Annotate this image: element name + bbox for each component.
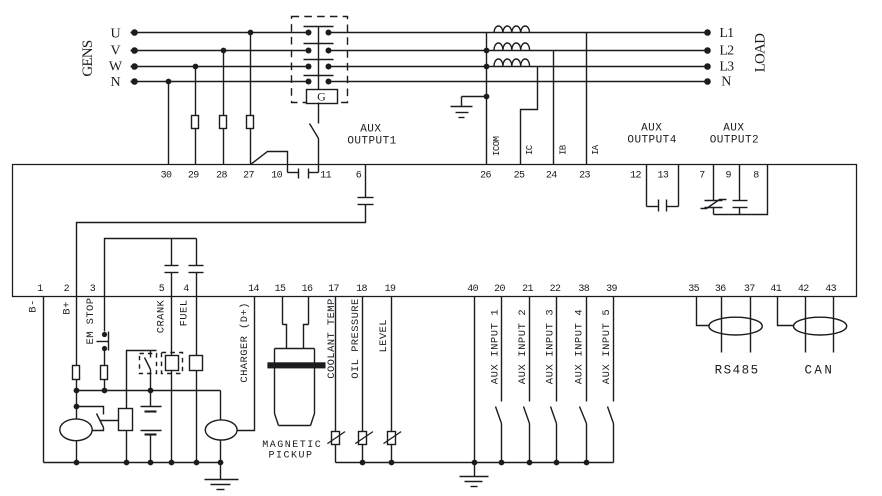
svg-text:B+: B+ xyxy=(61,301,73,314)
pin 11 xyxy=(320,170,331,181)
svg-text:LOAD: LOAD xyxy=(752,33,768,72)
svg-text:AUX INPUT 1: AUX INPUT 1 xyxy=(489,309,501,384)
starter motor M xyxy=(60,407,92,463)
label B- xyxy=(27,299,39,312)
pin 12 xyxy=(630,170,641,181)
svg-text:13: 13 xyxy=(657,170,668,181)
node L3 xyxy=(719,60,734,75)
wire terminal 15 xyxy=(283,297,287,349)
wire terminal 41 (shield) xyxy=(778,297,794,326)
wire terminal AUX INPUT 1 xyxy=(501,297,503,463)
wire ICOM (terminal 26) xyxy=(484,33,490,165)
svg-text:4: 4 xyxy=(183,284,189,295)
svg-text:28: 28 xyxy=(216,170,227,181)
label GENS xyxy=(80,40,96,76)
wire terminal 19 xyxy=(391,297,393,463)
generator breaker coil G xyxy=(307,90,338,104)
pin 20 (bottom) xyxy=(494,284,505,295)
wire terminal 14 xyxy=(238,297,255,431)
svg-text:19: 19 xyxy=(385,284,396,295)
wire terminal 43 xyxy=(833,297,835,353)
svg-text:30: 30 xyxy=(161,170,172,181)
wire terminal 37 xyxy=(750,297,752,353)
svg-text:OUTPUT1: OUTPUT1 xyxy=(347,136,396,148)
ground (CT common) xyxy=(451,107,473,118)
label B+ xyxy=(61,301,73,314)
svg-text:CHARGER (D+): CHARGER (D+) xyxy=(239,302,251,382)
wire terminal AUX INPUT 4 xyxy=(586,297,588,463)
controller box xyxy=(13,165,857,297)
pin 6 xyxy=(356,170,362,181)
wire terminal 18 xyxy=(362,297,364,463)
wire terminal 40 xyxy=(474,297,476,463)
wire CT ground tap xyxy=(462,97,487,107)
horn switch branch xyxy=(77,407,119,431)
wire terminal 29 to W bus xyxy=(195,67,197,165)
label AUX INPUT 4 xyxy=(573,309,585,384)
pin 22 (bottom) xyxy=(550,284,561,295)
label IA xyxy=(591,144,601,155)
wire terminal 10 jog from terminal 27 xyxy=(251,152,288,165)
label CHARGER (D+) xyxy=(239,302,251,382)
svg-text:1: 1 xyxy=(37,284,43,295)
wire U bus xyxy=(131,29,711,36)
svg-text:7: 7 xyxy=(699,170,705,181)
wire button to fuse xyxy=(104,351,106,366)
svg-text:9: 9 xyxy=(725,170,731,181)
wire terminal 5 (CRANK) xyxy=(171,297,173,463)
capacitor C2 (internal, to terminal 5) xyxy=(165,239,179,297)
label RS485 xyxy=(715,364,760,378)
svg-text:ICOM: ICOM xyxy=(492,136,502,156)
svg-text:MAGNETIC: MAGNETIC xyxy=(262,440,322,451)
relay K3 (fuel) xyxy=(190,356,203,371)
svg-text:L2: L2 xyxy=(719,44,734,59)
svg-text:AUX INPUT 4: AUX INPUT 4 xyxy=(573,309,585,384)
wire terminal AUX INPUT 3 xyxy=(556,297,558,463)
pin 19 (bottom) xyxy=(385,284,396,295)
svg-text:G: G xyxy=(317,90,326,104)
wire IB (terminal 24) xyxy=(553,51,555,165)
label LEVEL xyxy=(378,319,390,353)
label ICOM xyxy=(492,136,502,156)
svg-text:21: 21 xyxy=(522,284,533,295)
relay contact K1 (dashed) xyxy=(140,351,157,391)
pin 29 xyxy=(188,170,199,181)
svg-text:20: 20 xyxy=(494,284,505,295)
label AUX INPUT 2 xyxy=(517,309,529,384)
switch AUX INPUT 5 xyxy=(608,407,614,424)
pin 35 (bottom) xyxy=(688,284,699,295)
capacitor C1 (terminal 6 internal) xyxy=(358,198,374,205)
node N (load) xyxy=(721,75,731,90)
wire G coil to switch xyxy=(318,103,320,124)
RS485 cable shield xyxy=(709,317,762,335)
pin 27 xyxy=(243,170,254,181)
wire terminal 6 xyxy=(365,165,367,198)
svg-text:OUTPUT4: OUTPUT4 xyxy=(627,135,676,147)
wire varistor to bracket xyxy=(713,208,715,215)
current transformer CT2 (L2) xyxy=(494,43,530,50)
label AUX INPUT 1 xyxy=(489,309,501,384)
fuse F2 (terminal 28) xyxy=(220,116,227,129)
svg-text:5: 5 xyxy=(159,284,165,295)
pin 40 (bottom) xyxy=(467,284,478,295)
switch AUX INPUT 4 xyxy=(580,407,587,424)
charger generator D+ xyxy=(205,420,237,463)
label LOAD xyxy=(752,33,768,72)
fuse F1 (terminal 27) xyxy=(247,116,254,129)
CAN cable shield xyxy=(794,317,847,335)
wire fuse F5 to B+ rail xyxy=(104,380,106,391)
battery 24V xyxy=(141,391,162,463)
pin 9 xyxy=(725,170,731,181)
label AUX OUTPUT4 xyxy=(627,123,676,147)
svg-text:IA: IA xyxy=(591,144,601,155)
wire terminal 1 (B-) xyxy=(43,297,45,463)
label FUEL xyxy=(178,300,190,327)
svg-text:41: 41 xyxy=(770,284,781,295)
wire terminal 42 xyxy=(805,297,807,353)
pin 18 (bottom) xyxy=(356,284,367,295)
relay contact AUX OUTPUT1 (terminals 10-11) xyxy=(288,165,319,179)
svg-text:W: W xyxy=(109,60,123,75)
switch AUX INPUT 2 xyxy=(524,407,530,424)
emergency stop button xyxy=(97,332,109,352)
pin 5 (bottom) xyxy=(159,284,165,295)
label COOLANT TEMP xyxy=(326,298,338,378)
svg-text:36: 36 xyxy=(715,284,726,295)
wire internal rail to terminal 2 xyxy=(77,205,366,297)
node U xyxy=(110,27,120,42)
wire terminal 12 xyxy=(647,165,659,207)
wire terminal 28 to V bus xyxy=(223,51,225,165)
label AUX OUTPUT1 xyxy=(347,123,396,147)
wire K1 coil to negative rail xyxy=(126,431,128,463)
svg-text:AUX INPUT 5: AUX INPUT 5 xyxy=(601,309,613,384)
svg-text:25: 25 xyxy=(514,170,525,181)
wire N bus xyxy=(131,78,711,85)
breaker control switch blade xyxy=(310,124,319,139)
svg-text:15: 15 xyxy=(275,284,286,295)
svg-text:37: 37 xyxy=(744,284,755,295)
svg-text:V: V xyxy=(110,44,120,59)
wire terminal 4 (FUEL) xyxy=(196,297,198,463)
pin 24 xyxy=(546,170,557,181)
node N (gens) xyxy=(110,75,120,90)
wire B+ rail to charger xyxy=(220,391,222,420)
fuse F5 (EM stop) xyxy=(101,366,108,380)
svg-text:10: 10 xyxy=(271,170,282,181)
svg-text:23: 23 xyxy=(579,170,590,181)
svg-text:GENS: GENS xyxy=(80,40,96,76)
pin 39 (bottom) xyxy=(606,284,617,295)
pin 7 xyxy=(699,170,705,181)
svg-text:L1: L1 xyxy=(719,26,734,41)
svg-text:42: 42 xyxy=(798,284,809,295)
label MAGNETIC PICKUP xyxy=(262,440,322,462)
svg-text:IC: IC xyxy=(525,144,535,155)
pin 1 (bottom) xyxy=(37,284,43,295)
wire EM stop aux contact feed xyxy=(127,351,157,409)
oil pressure sensor xyxy=(355,432,373,445)
pin 15 (bottom) xyxy=(275,284,286,295)
capacitor C4 (internal, AUX OUTPUT2) xyxy=(733,201,748,215)
wire terminal 35 (shield) xyxy=(697,297,709,326)
wire terminal 8 and snubber bracket xyxy=(714,165,768,215)
node V xyxy=(110,44,120,59)
wire switch to terminal 11 xyxy=(318,139,320,165)
svg-text:12: 12 xyxy=(630,170,641,181)
svg-text:CAN: CAN xyxy=(805,364,835,378)
generator breaker dashed enclosure xyxy=(292,17,348,103)
pin 38 (bottom) xyxy=(578,284,589,295)
current transformer CT1 (L1) xyxy=(494,26,530,33)
svg-text:24: 24 xyxy=(546,170,557,181)
wire terminal 13 xyxy=(667,165,679,207)
svg-text:16: 16 xyxy=(302,284,313,295)
svg-text:N: N xyxy=(721,75,731,90)
pin 36 (bottom) xyxy=(715,284,726,295)
sensor common rail xyxy=(336,460,614,466)
svg-text:8: 8 xyxy=(753,170,759,181)
pin 43 (bottom) xyxy=(825,284,836,295)
fuse F4 (B+) xyxy=(73,366,80,380)
wire internal rail terminal 3 xyxy=(105,239,197,297)
wire terminal AUX INPUT 2 xyxy=(529,297,531,463)
pin 30 xyxy=(161,170,172,181)
wire terminal 9 xyxy=(739,165,741,201)
svg-text:PICKUP: PICKUP xyxy=(268,451,313,462)
wire terminal AUX INPUT 5 xyxy=(613,297,615,463)
svg-text:39: 39 xyxy=(606,284,617,295)
svg-text:27: 27 xyxy=(243,170,254,181)
svg-text:RS485: RS485 xyxy=(715,364,760,378)
label AUX INPUT 3 xyxy=(544,309,556,384)
wire terminal 17 xyxy=(335,297,337,463)
generator breaker contacts xyxy=(304,27,334,90)
svg-text:AUX: AUX xyxy=(360,123,381,135)
pin 23 xyxy=(579,170,590,181)
wire IA (terminal 23) xyxy=(586,33,588,165)
pin 21 (bottom) xyxy=(522,284,533,295)
label CAN xyxy=(805,364,835,378)
svg-text:B-: B- xyxy=(27,299,39,312)
node L1 xyxy=(719,26,734,41)
svg-text:FUEL: FUEL xyxy=(178,300,190,327)
svg-text:AUX: AUX xyxy=(723,123,744,135)
svg-text:EM STOP: EM STOP xyxy=(85,298,97,345)
pin 26 xyxy=(480,170,491,181)
pin 10 xyxy=(271,170,282,181)
ground (signal common) xyxy=(460,463,489,487)
label OIL PRESSURE xyxy=(350,298,362,378)
capacitor C3 (internal, to terminal 4) xyxy=(189,239,204,297)
svg-text:N: N xyxy=(110,75,120,90)
svg-text:LEVEL: LEVEL xyxy=(378,319,390,353)
switch AUX INPUT 1 xyxy=(496,407,502,424)
svg-text:14: 14 xyxy=(248,284,259,295)
ground (charger) xyxy=(205,463,239,490)
svg-text:38: 38 xyxy=(578,284,589,295)
label AUX INPUT 5 xyxy=(601,309,613,384)
pin 13 xyxy=(657,170,668,181)
svg-text:3: 3 xyxy=(90,284,96,295)
svg-text:AUX INPUT 2: AUX INPUT 2 xyxy=(517,309,529,384)
pin 28 xyxy=(216,170,227,181)
magnetic pickup sensor xyxy=(267,349,325,426)
pin 3 (bottom) xyxy=(90,284,96,295)
pin 4 (bottom) xyxy=(183,284,189,295)
svg-text:AUX: AUX xyxy=(641,123,662,135)
svg-text:22: 22 xyxy=(550,284,561,295)
pin 2 (bottom) xyxy=(64,284,70,295)
svg-text:40: 40 xyxy=(467,284,478,295)
svg-text:CRANK: CRANK xyxy=(155,299,167,333)
wire terminal 36 xyxy=(721,297,723,353)
svg-text:43: 43 xyxy=(825,284,836,295)
svg-text:L3: L3 xyxy=(719,60,734,75)
pin 14 (bottom) xyxy=(248,284,259,295)
svg-text:2: 2 xyxy=(64,284,70,295)
wire terminal 2 (B+) xyxy=(76,297,78,391)
wire terminal 16 xyxy=(304,297,309,349)
svg-text:OUTPUT2: OUTPUT2 xyxy=(710,135,759,147)
switch AUX INPUT 3 xyxy=(551,407,557,424)
svg-text:17: 17 xyxy=(328,284,339,295)
relay K2 (crank) xyxy=(162,353,183,374)
label AUX OUTPUT2 xyxy=(710,123,759,147)
node L2 xyxy=(719,44,734,59)
svg-text:11: 11 xyxy=(320,170,331,181)
svg-text:26: 26 xyxy=(480,170,491,181)
label IB xyxy=(558,144,568,155)
svg-text:18: 18 xyxy=(356,284,367,295)
coolant temp sensor xyxy=(327,432,345,445)
svg-text:35: 35 xyxy=(688,284,699,295)
svg-text:OIL PRESSURE: OIL PRESSURE xyxy=(350,298,362,378)
wire B+ rail to starter xyxy=(74,391,80,410)
varistor RV1 (internal) xyxy=(701,200,727,209)
pin 16 (bottom) xyxy=(302,284,313,295)
level sensor xyxy=(384,432,402,445)
svg-text:AUX INPUT 3: AUX INPUT 3 xyxy=(544,309,556,384)
node W xyxy=(109,60,123,75)
wire terminal 27 to U bus xyxy=(250,33,252,165)
label EM STOP xyxy=(85,298,97,345)
wire W bus xyxy=(131,63,711,70)
svg-text:29: 29 xyxy=(188,170,199,181)
pin 37 (bottom) xyxy=(744,284,755,295)
pin 25 xyxy=(514,170,525,181)
fuse F3 (terminal 29) xyxy=(192,116,199,129)
current transformer CT3 (L3) xyxy=(494,59,530,66)
label IC xyxy=(525,144,535,155)
pin 42 (bottom) xyxy=(798,284,809,295)
wire V bus xyxy=(131,47,711,54)
wire IC (terminal 25) xyxy=(521,67,538,165)
wire terminal 30 to N bus xyxy=(168,82,170,165)
wire terminal 3 (EM STOP) xyxy=(104,297,106,332)
pin 17 (bottom) xyxy=(328,284,339,295)
relay contact AUX OUTPUT4 (terminals 12-13) xyxy=(659,200,667,212)
B+ rail xyxy=(74,388,221,394)
pin 41 (bottom) xyxy=(770,284,781,295)
battery negative rail xyxy=(44,460,224,466)
relay coil K1 xyxy=(119,409,133,431)
svg-text:U: U xyxy=(110,27,120,42)
svg-text:6: 6 xyxy=(356,170,362,181)
svg-text:IB: IB xyxy=(558,144,568,155)
wire terminal 7 xyxy=(713,165,715,201)
pin 8 xyxy=(753,170,759,181)
label CRANK xyxy=(155,299,167,333)
